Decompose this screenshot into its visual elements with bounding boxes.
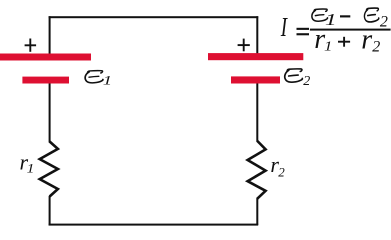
svg-text:2: 2 (278, 165, 285, 180)
wire bottom (49, 224, 259, 226)
formula numerator script-E2 (364, 8, 378, 22)
battery B2 negative plate (short red bar) (231, 76, 280, 83)
wire left-middle (battery B1 negative lead to resistor r1) (49, 83, 51, 142)
svg-text:2: 2 (380, 14, 388, 31)
formula fraction bar (310, 29, 391, 31)
svg-text:r: r (361, 24, 372, 55)
wire right-top (battery B2 positive lead) (256, 16, 258, 53)
wire left-top (battery B1 positive lead) (49, 16, 51, 53)
wire right-bottom (256, 198, 258, 225)
svg-text:I: I (280, 13, 288, 43)
formula numerator script-E1 (312, 9, 328, 21)
plus sign at battery B1 (25, 39, 36, 52)
svg-text:2: 2 (303, 74, 310, 89)
label EMF script-E1 at battery B1 (85, 71, 103, 83)
battery B1 positive plate (long red bar) (0, 54, 91, 61)
svg-text:2: 2 (372, 39, 380, 56)
wire top (49, 16, 259, 18)
battery B2 positive plate (long red bar) (208, 53, 303, 60)
formula denominator plus sign (338, 37, 350, 47)
wire right-middle (battery B2 negative lead to resistor r2) (256, 83, 258, 141)
formula equals sign (297, 28, 310, 36)
formula numerator minus sign (340, 15, 350, 17)
resistor r1 zigzag (40, 142, 58, 197)
label EMF script-E2 at battery B2 (285, 69, 303, 82)
wire left-bottom (49, 196, 51, 225)
battery B1 negative plate (short red bar) (22, 77, 69, 84)
resistor r2 zigzag (248, 141, 266, 199)
svg-text:1: 1 (103, 74, 112, 87)
svg-text:1: 1 (27, 161, 35, 175)
svg-text:1: 1 (324, 39, 332, 54)
svg-text:1: 1 (325, 11, 337, 29)
plus sign at battery B2 (238, 39, 250, 52)
